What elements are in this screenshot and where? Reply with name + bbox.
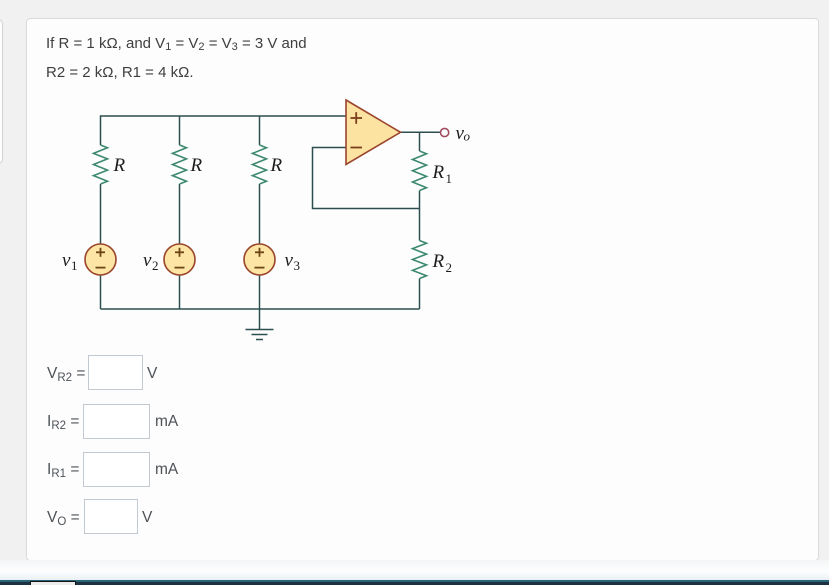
svg-text:R: R bbox=[270, 155, 283, 176]
svg-text:v: v bbox=[62, 250, 71, 271]
svg-text:R: R bbox=[432, 251, 445, 272]
svg-text:1: 1 bbox=[71, 258, 78, 273]
svg-text:v: v bbox=[285, 250, 294, 271]
svg-text:2: 2 bbox=[446, 260, 453, 275]
svg-text:R: R bbox=[190, 155, 203, 176]
svg-text:R: R bbox=[113, 155, 126, 176]
svg-text:R: R bbox=[432, 162, 445, 183]
svg-text:o: o bbox=[464, 129, 471, 144]
svg-text:2: 2 bbox=[152, 258, 159, 273]
svg-text:1: 1 bbox=[446, 171, 453, 186]
svg-text:v: v bbox=[143, 250, 152, 271]
svg-text:3: 3 bbox=[294, 258, 301, 273]
